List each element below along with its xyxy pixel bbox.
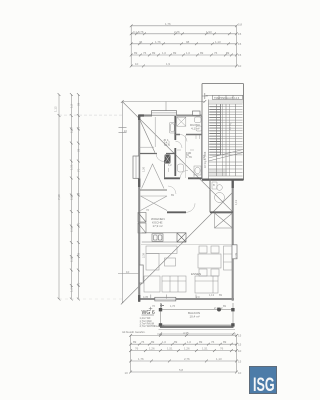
svg-text:1,9: 1,9 bbox=[166, 62, 170, 66]
svg-text:1,76: 1,76 bbox=[138, 357, 144, 361]
svg-text:1,26: 1,26 bbox=[142, 166, 146, 172]
svg-text:76: 76 bbox=[211, 340, 215, 344]
svg-text:76: 76 bbox=[220, 347, 224, 351]
svg-text:89: 89 bbox=[76, 102, 80, 106]
svg-text:98: 98 bbox=[186, 40, 190, 44]
svg-text:89: 89 bbox=[200, 51, 204, 55]
svg-text:4,35: 4,35 bbox=[183, 331, 189, 335]
svg-text:2,64: 2,64 bbox=[202, 154, 206, 160]
svg-text:76: 76 bbox=[135, 347, 139, 351]
svg-text:2,89: 2,89 bbox=[69, 194, 73, 200]
svg-text:1,51: 1,51 bbox=[202, 347, 208, 351]
svg-text:89: 89 bbox=[133, 340, 137, 344]
svg-text:10: 10 bbox=[135, 62, 139, 66]
svg-text:1,64: 1,64 bbox=[69, 286, 73, 292]
svg-text:89: 89 bbox=[76, 148, 80, 152]
svg-text:TREPPENHAUS 12,6: TREPPENHAUS 12,6 bbox=[214, 96, 240, 100]
svg-text:15: 15 bbox=[238, 53, 242, 57]
svg-text:10: 10 bbox=[238, 371, 242, 375]
svg-text:76: 76 bbox=[141, 340, 145, 344]
svg-text:1,93: 1,93 bbox=[206, 30, 212, 34]
svg-text:1,2: 1,2 bbox=[168, 163, 172, 167]
svg-text:89: 89 bbox=[199, 340, 203, 344]
svg-text:1,13: 1,13 bbox=[234, 199, 238, 205]
svg-text:0,1 8,76: 0,1 8,76 bbox=[133, 30, 144, 34]
svg-text:17,9 m²: 17,9 m² bbox=[153, 224, 163, 228]
svg-text:1,0: 1,0 bbox=[187, 340, 191, 344]
svg-text:2,1 m²: 2,1 m² bbox=[214, 306, 223, 310]
svg-text:16 Stg: 16 Stg bbox=[228, 122, 232, 130]
svg-text:2,26: 2,26 bbox=[69, 127, 73, 133]
svg-text:ESSEN: ESSEN bbox=[191, 272, 201, 276]
svg-text:2,76: 2,76 bbox=[174, 30, 180, 34]
svg-text:76: 76 bbox=[139, 40, 143, 44]
svg-text:76: 76 bbox=[214, 51, 218, 55]
svg-text:1,13: 1,13 bbox=[216, 357, 222, 361]
svg-text:10: 10 bbox=[238, 64, 242, 68]
svg-text:1,76: 1,76 bbox=[165, 22, 171, 26]
svg-text:10: 10 bbox=[125, 371, 129, 375]
svg-text:WG 6: WG 6 bbox=[142, 310, 155, 316]
svg-text:89: 89 bbox=[151, 340, 155, 344]
svg-text:5,8: 5,8 bbox=[179, 368, 183, 372]
svg-text:5,8: 5,8 bbox=[238, 23, 242, 27]
svg-text:h2,5: h2,5 bbox=[164, 143, 170, 147]
svg-text:1,13: 1,13 bbox=[209, 293, 215, 297]
svg-text:4,7m² WOHNFLÄCHE: 4,7m² WOHNFLÄCHE bbox=[140, 325, 165, 328]
svg-text:1,51: 1,51 bbox=[167, 347, 173, 351]
svg-text:1,0: 1,0 bbox=[162, 340, 166, 344]
svg-text:2,64: 2,64 bbox=[69, 226, 73, 232]
svg-text:10: 10 bbox=[124, 129, 128, 133]
svg-text:15: 15 bbox=[238, 42, 242, 46]
svg-text:4,1 m²: 4,1 m² bbox=[191, 127, 200, 131]
svg-text:89: 89 bbox=[134, 51, 138, 55]
svg-text:15: 15 bbox=[238, 360, 242, 364]
svg-text:89: 89 bbox=[76, 192, 80, 196]
svg-text:89: 89 bbox=[174, 340, 178, 344]
svg-text:76: 76 bbox=[76, 282, 80, 286]
svg-text:15: 15 bbox=[238, 32, 242, 36]
svg-text:1,51: 1,51 bbox=[69, 164, 73, 170]
svg-text:1,0: 1,0 bbox=[162, 51, 166, 55]
svg-text:89: 89 bbox=[219, 293, 222, 297]
svg-text:10,4 m²: 10,4 m² bbox=[190, 315, 200, 319]
svg-text:mit freundl. Genehm.: mit freundl. Genehm. bbox=[122, 331, 146, 334]
svg-text:76: 76 bbox=[152, 304, 155, 308]
svg-text:76: 76 bbox=[76, 222, 80, 226]
svg-text:10: 10 bbox=[238, 349, 242, 353]
svg-text:15: 15 bbox=[238, 343, 242, 347]
svg-text:76: 76 bbox=[76, 126, 80, 130]
svg-text:89: 89 bbox=[152, 51, 156, 55]
svg-text:2,0: 2,0 bbox=[196, 295, 200, 299]
svg-text:89: 89 bbox=[76, 252, 80, 256]
svg-text:89: 89 bbox=[223, 340, 227, 344]
svg-text:B: B bbox=[213, 183, 215, 187]
svg-text:1,26: 1,26 bbox=[149, 347, 155, 351]
svg-text:89: 89 bbox=[173, 51, 177, 55]
svg-text:1,13: 1,13 bbox=[215, 40, 221, 44]
svg-text:2,76: 2,76 bbox=[184, 357, 190, 361]
svg-text:7,38: 7,38 bbox=[57, 194, 61, 200]
svg-text:4,35: 4,35 bbox=[143, 295, 149, 299]
svg-text:1,26: 1,26 bbox=[184, 347, 190, 351]
svg-text:1,0: 1,0 bbox=[186, 51, 190, 55]
svg-text:2,39: 2,39 bbox=[69, 256, 73, 262]
svg-text:89: 89 bbox=[171, 193, 174, 197]
svg-text:76: 76 bbox=[146, 208, 149, 212]
svg-text:10: 10 bbox=[126, 270, 130, 274]
svg-text:2,39: 2,39 bbox=[234, 252, 238, 258]
svg-text:76: 76 bbox=[76, 168, 80, 172]
svg-text:89: 89 bbox=[223, 304, 226, 308]
svg-text:2,39: 2,39 bbox=[142, 252, 146, 258]
svg-text:1,2: 1,2 bbox=[69, 104, 73, 108]
svg-text:1,76: 1,76 bbox=[170, 304, 176, 308]
svg-text:1,12: 1,12 bbox=[54, 106, 58, 112]
svg-text:89: 89 bbox=[226, 51, 230, 55]
svg-text:76: 76 bbox=[143, 51, 147, 55]
svg-text:15: 15 bbox=[238, 334, 242, 338]
svg-text:1,76: 1,76 bbox=[155, 40, 161, 44]
